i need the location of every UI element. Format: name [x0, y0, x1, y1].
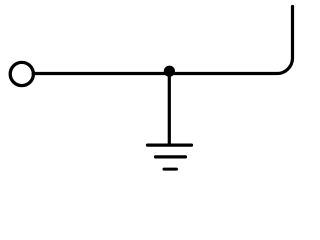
ground bar 2 (middle)	[156, 155, 186, 158]
wire: vertical from junction down to ground	[168, 71, 171, 145]
ground bar 3 (bottom, shortest)	[164, 168, 177, 171]
ground bar 1 (top, widest)	[148, 144, 192, 147]
wire: horizontal from terminal to right corner, curving up	[33, 7, 292, 74]
node: junction dot	[164, 66, 175, 77]
terminal circle	[10, 62, 33, 85]
ground	[148, 145, 192, 169]
